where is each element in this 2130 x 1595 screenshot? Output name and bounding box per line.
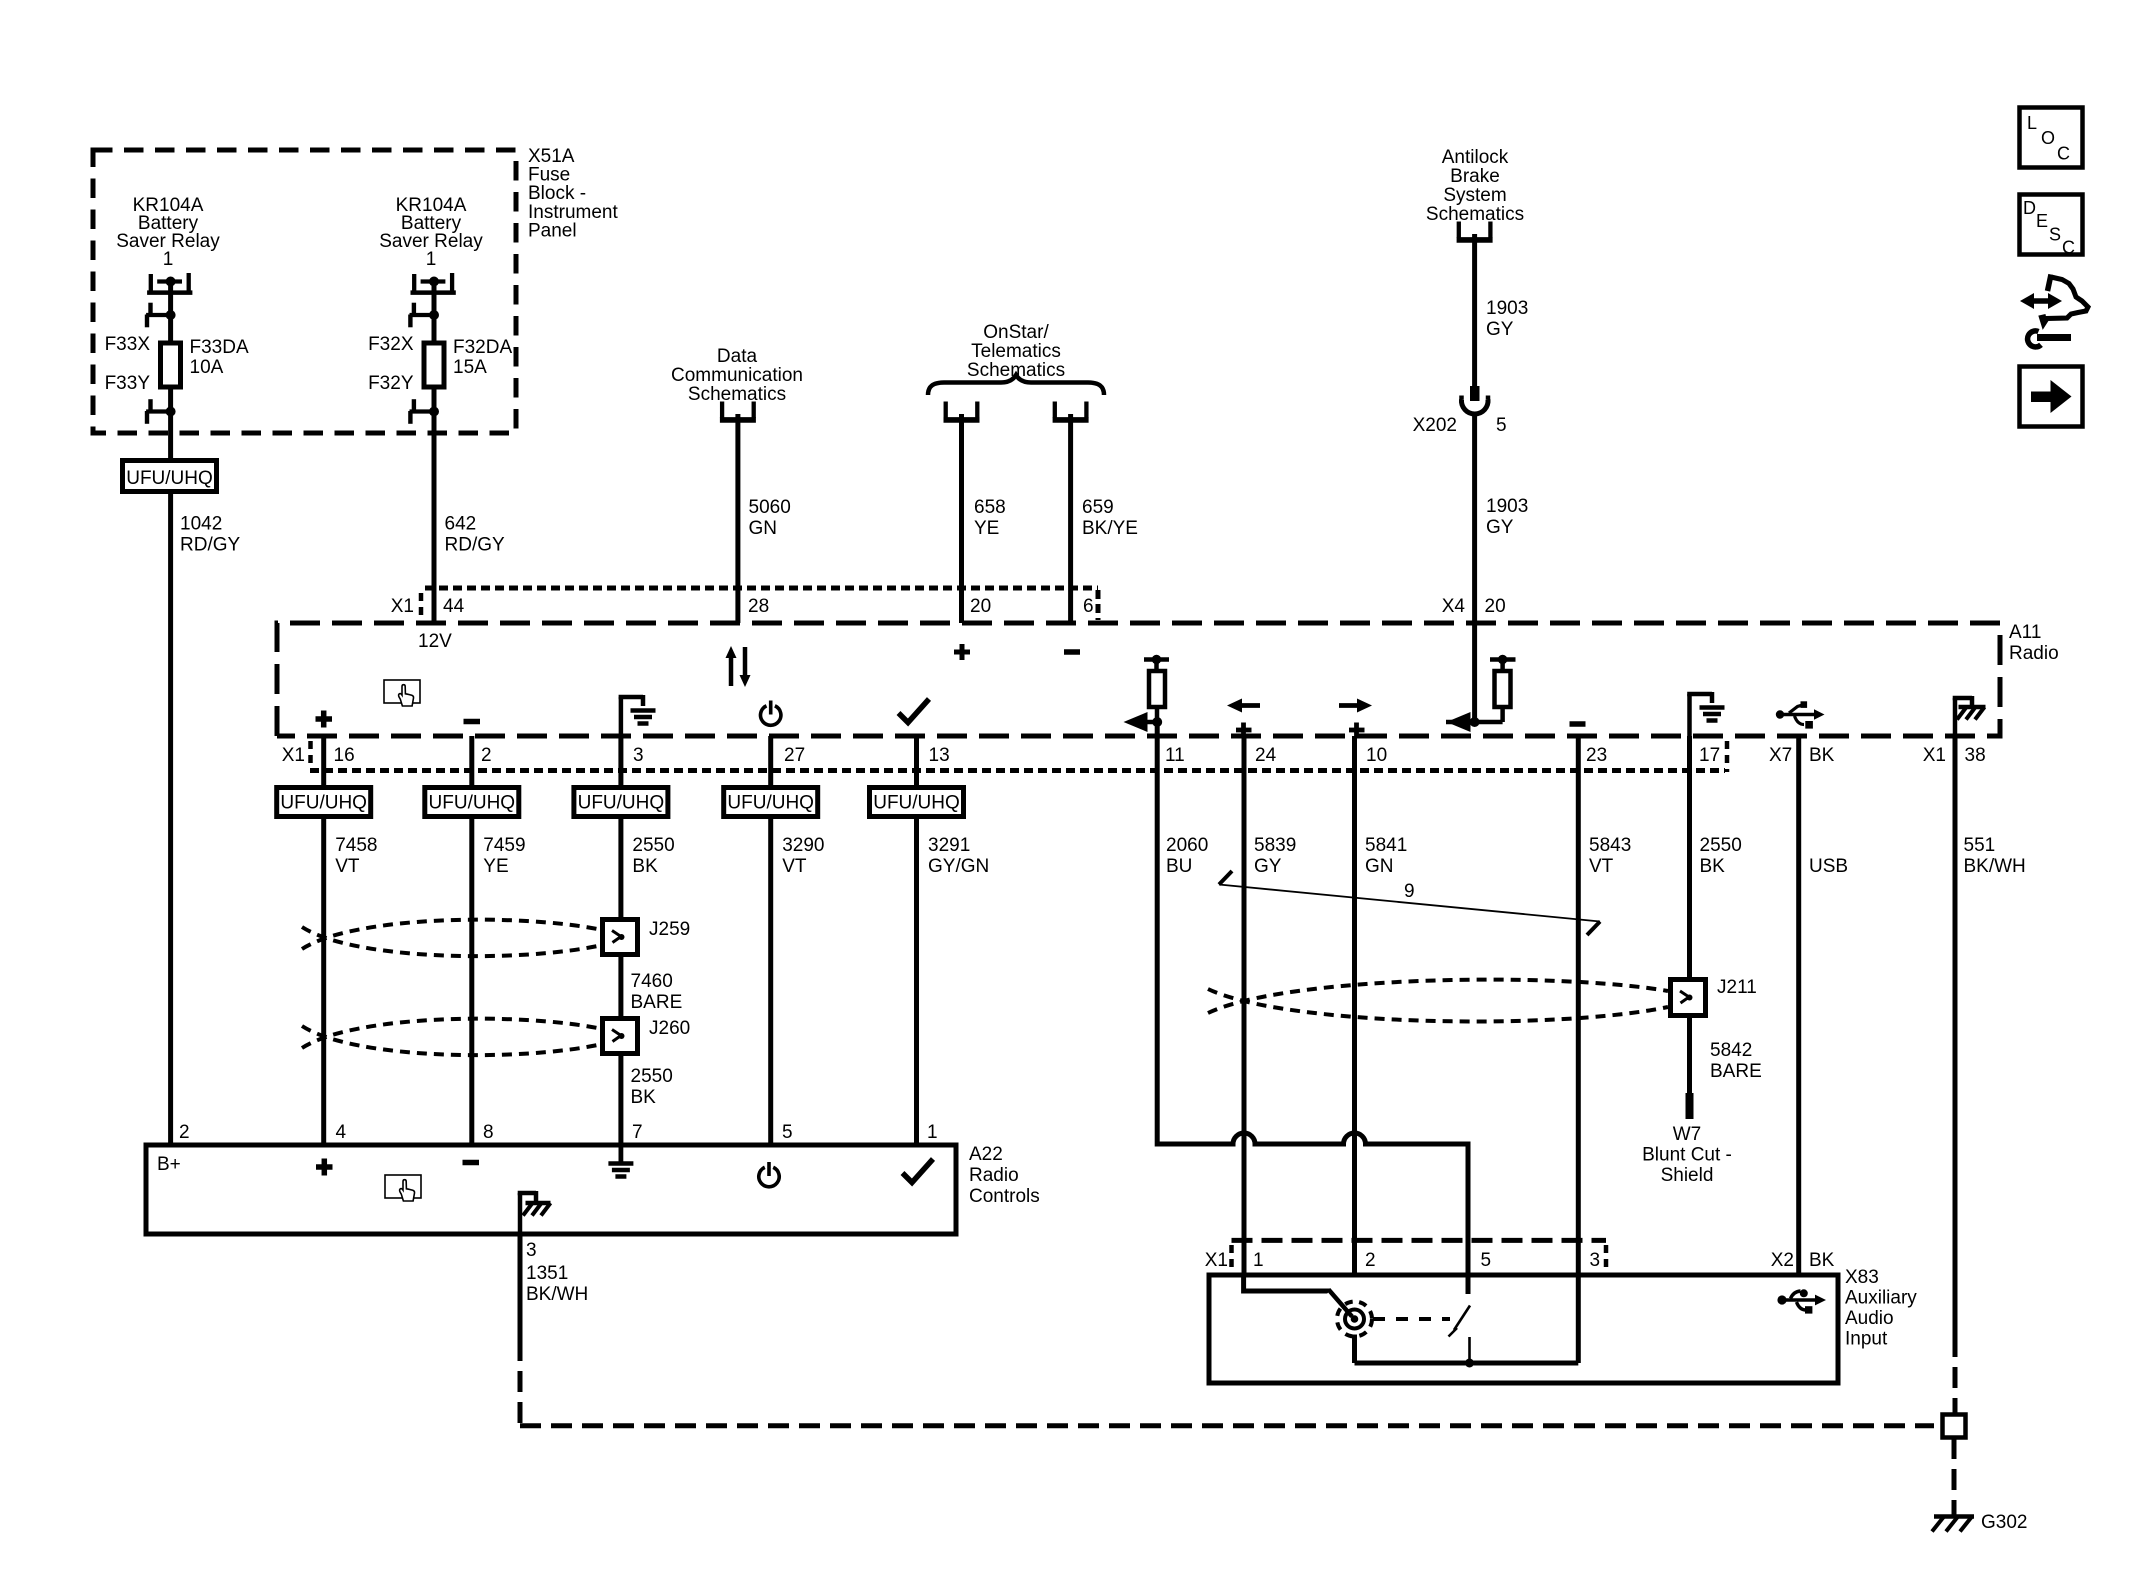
icon check (A22 pin 1) — [903, 1159, 934, 1183]
wire 2550 BK (pin 17) — [1687, 736, 1692, 981]
svg-text:2060: 2060 — [1166, 835, 1208, 856]
svg-text:13: 13 — [929, 745, 950, 766]
ECU box A11 Radio (dashed) — [277, 623, 2000, 736]
svg-text:3: 3 — [1590, 1250, 1601, 1271]
icon box next arrow — [2020, 367, 2083, 427]
label A22 pin 3 — [526, 1240, 537, 1261]
label 7458 VT — [335, 835, 377, 877]
fuse F33DA 10A — [161, 343, 181, 387]
svg-text:2: 2 — [1365, 1250, 1376, 1271]
option box UFU/UHQ (3290 wire) — [724, 788, 818, 817]
svg-text:24: 24 — [1255, 745, 1277, 766]
svg-text:2: 2 — [179, 1122, 190, 1143]
svg-text:VT: VT — [335, 856, 360, 877]
svg-text:J211: J211 — [1717, 977, 1757, 998]
terminal clip lower (left relay) — [146, 399, 176, 424]
wire stub radio pin 13 — [914, 736, 919, 789]
relay KR104A label (right) — [379, 195, 483, 270]
wire 1351 BK/WH (dashed to ground) — [520, 1340, 1934, 1426]
svg-text:1042: 1042 — [180, 514, 222, 535]
splice J211 — [1671, 980, 1706, 1016]
svg-text:Data: Data — [717, 346, 758, 367]
svg-text:7460: 7460 — [631, 971, 673, 992]
icon X4 pin 20 input arrow and element — [1446, 623, 1516, 732]
wire X83 pin 3 down — [1576, 1277, 1581, 1363]
svg-text:BK/WH: BK/WH — [1964, 856, 2026, 877]
wire 5839 GY (pin 24) — [1242, 736, 1247, 1277]
label F33X — [105, 334, 151, 355]
label F32X — [368, 334, 414, 355]
svg-text:10: 10 — [1366, 745, 1387, 766]
module box A22 Radio Controls — [146, 1145, 956, 1234]
wire 5060 GN — [735, 414, 740, 623]
label A22 Radio Controls — [969, 1144, 1040, 1207]
svg-text:7459: 7459 — [483, 835, 525, 856]
svg-text:BK/WH: BK/WH — [526, 1284, 588, 1305]
wire 7460 BARE (J259 to J260) — [618, 953, 623, 1020]
label BK (X7) — [1809, 745, 1835, 766]
svg-text:GY/GN: GY/GN — [928, 856, 989, 877]
label Antilock Brake System Schematics — [1426, 147, 1524, 225]
svg-text:2550: 2550 — [631, 1066, 673, 1087]
splice J260 — [603, 1019, 638, 1054]
svg-text:VT: VT — [782, 856, 807, 877]
wire relay2 pin to clip — [432, 282, 437, 316]
wire to G302 (dashed) — [1952, 1438, 1957, 1515]
label X83 pin 5 — [1481, 1250, 1492, 1271]
svg-text:12V: 12V — [418, 631, 452, 652]
icon signal ground (pin 17) — [1687, 692, 1724, 736]
relay KR104A label (left) — [116, 195, 220, 270]
label pin 27 — [784, 745, 805, 766]
label OnStar/Telematics Schematics — [967, 322, 1065, 381]
svg-text:BARE: BARE — [631, 992, 683, 1013]
wire clip to fuse F33DA — [168, 315, 173, 343]
svg-text:X1: X1 — [282, 745, 305, 766]
label A22 pin 8 — [483, 1122, 494, 1143]
icon signal ground (pin 3) — [619, 695, 656, 736]
icon USB (pin X7) — [1776, 701, 1825, 728]
svg-text:VT: VT — [1589, 856, 1614, 877]
terminal clip lower (right relay) — [410, 399, 440, 424]
svg-text:2: 2 — [481, 745, 492, 766]
label A22 pin 7 — [632, 1122, 643, 1143]
connector box X83 — [1209, 1275, 1838, 1383]
svg-text:X4: X4 — [1442, 596, 1466, 617]
terminal clip upper (right relay) — [410, 303, 440, 328]
label BK (X83) — [1809, 1250, 1835, 1271]
svg-text:GY: GY — [1486, 319, 1514, 340]
label 7460 BARE — [631, 971, 683, 1013]
svg-text:X1: X1 — [1205, 1250, 1228, 1271]
label pin 2 — [481, 745, 492, 766]
label pin 3 — [633, 745, 644, 766]
connector row dotted line (radio top) — [425, 588, 1098, 620]
svg-text:Radio: Radio — [2009, 643, 2059, 664]
icon - (pin 23) — [1570, 721, 1586, 727]
wire stub radio pin 16 — [321, 736, 326, 789]
svg-text:BK/YE: BK/YE — [1082, 518, 1138, 539]
label X83 pin 1 — [1253, 1250, 1264, 1271]
wire 2060 BU horizontal with hops — [1158, 1133, 1469, 1294]
svg-text:UFU/UHQ: UFU/UHQ — [429, 793, 516, 814]
svg-text:J260: J260 — [649, 1018, 690, 1039]
wire 1351 BK/WH (solid) — [518, 1234, 523, 1340]
wire 1903 GY upper — [1472, 234, 1477, 387]
label X4 — [1442, 596, 1466, 617]
label pin 20 (X1) — [970, 596, 991, 617]
svg-text:RD/GY: RD/GY — [445, 535, 506, 556]
icon - (pin 2) — [464, 719, 481, 725]
wire 1042 RD/GY — [168, 491, 173, 1147]
wire 1903 GY lower — [1472, 412, 1477, 625]
wire 551 BK/WH dashed segment — [1953, 1336, 1958, 1414]
shield drain loop to J211 — [1208, 980, 1668, 1022]
label X1 (X83) — [1205, 1250, 1228, 1271]
label 1903 GY (lower) — [1486, 496, 1528, 538]
svg-text:BK: BK — [1809, 1250, 1835, 1271]
splice J259 — [603, 920, 638, 955]
svg-text:5: 5 — [1481, 1250, 1492, 1271]
svg-text:Auxiliary: Auxiliary — [1845, 1288, 1917, 1309]
svg-text:X1: X1 — [391, 596, 414, 617]
svg-text:Blunt Cut -: Blunt Cut - — [1642, 1145, 1732, 1166]
label W7 Blunt Cut - Shield — [1642, 1124, 1732, 1186]
svg-text:5841: 5841 — [1365, 835, 1407, 856]
wire 551 BK/WH (pin 38) — [1953, 736, 1958, 1336]
wire 2550 BK (J260 to A22 pin 7) — [618, 1052, 623, 1147]
icon check (pin 13) — [899, 699, 930, 723]
svg-text:X7: X7 — [1769, 745, 1792, 766]
label pin 24 — [1255, 745, 1277, 766]
shield drain loop to J260 — [302, 1019, 600, 1055]
wire relay1 pin to clip — [168, 282, 173, 316]
relay KR104A pin 1 connector (right) — [411, 273, 456, 293]
icon chassis ground (A22 pin 3) — [518, 1191, 551, 1234]
svg-text:UFU/UHQ: UFU/UHQ — [126, 468, 213, 489]
svg-text:4: 4 — [336, 1122, 347, 1143]
label pin 10 — [1366, 745, 1387, 766]
svg-text:642: 642 — [445, 514, 477, 535]
icon right arrow (pin 10) — [1339, 699, 1372, 713]
svg-text:Schematics: Schematics — [1426, 204, 1524, 225]
off-page connector (onstar +) — [944, 402, 980, 420]
svg-text:Input: Input — [1845, 1329, 1888, 1350]
icon chassis ground (pin 38) — [1953, 696, 1986, 736]
svg-text:Antilock: Antilock — [1442, 147, 1509, 168]
svg-text:E: E — [2036, 211, 2048, 231]
label 2550 BK (pin 17) — [1700, 835, 1742, 877]
switch blade (X83) — [1449, 1306, 1471, 1337]
svg-text:Brake: Brake — [1450, 166, 1500, 187]
label 7459 YE — [483, 835, 525, 877]
svg-text:Controls: Controls — [969, 1186, 1040, 1207]
svg-text:20: 20 — [970, 596, 991, 617]
svg-text:1: 1 — [927, 1122, 938, 1143]
label 5841 GN — [1365, 835, 1407, 877]
label 642 RD/GY — [445, 514, 506, 556]
wire 658 YE — [959, 414, 964, 623]
label USB — [1809, 856, 1848, 877]
svg-text:UFU/UHQ: UFU/UHQ — [727, 793, 814, 814]
label F33Y — [105, 373, 151, 394]
icon signal ground (A22 pin 7) — [608, 1145, 633, 1177]
label pin 23 — [1586, 745, 1607, 766]
svg-text:D: D — [2023, 198, 2036, 218]
svg-text:28: 28 — [748, 596, 769, 617]
wire USB X7 — [1796, 736, 1801, 1277]
label A22 pin 2 — [179, 1122, 190, 1143]
icon vehicle data exchange — [2020, 275, 2088, 347]
circuit 9 indicator line — [1219, 871, 1600, 935]
wire relay1 out of fuse block — [168, 412, 173, 461]
fuse F32DA 15A — [424, 343, 444, 387]
icon USB (X83) — [1777, 1289, 1826, 1313]
label pin 11 — [1165, 745, 1185, 766]
svg-text:38: 38 — [1965, 745, 1986, 766]
svg-text:3: 3 — [526, 1240, 537, 1261]
brace (onstar telematics) — [928, 375, 1104, 395]
label 5842 BARE — [1710, 1040, 1762, 1082]
svg-text:BK: BK — [631, 1087, 657, 1108]
icon left arrow (pin 24) — [1227, 699, 1260, 713]
svg-text:5060: 5060 — [749, 497, 791, 518]
wire 659 BK/YE — [1068, 414, 1073, 623]
wire stub radio pin 2 — [469, 736, 474, 789]
svg-text:20: 20 — [1485, 596, 1506, 617]
label 1351 BK/WH — [526, 1263, 588, 1305]
svg-text:GN: GN — [749, 518, 778, 539]
label 1042 RD/GY — [180, 514, 241, 556]
label X1 (radio top) — [391, 596, 414, 617]
connector row dotted line (radio bottom) — [310, 768, 1725, 773]
wire X83 jack return — [1355, 1335, 1579, 1364]
label 2550 BK (below J260) — [631, 1066, 673, 1108]
svg-text:BARE: BARE — [1710, 1061, 1762, 1082]
svg-text:6: 6 — [1083, 596, 1094, 617]
svg-text:8: 8 — [483, 1122, 494, 1143]
off-page connector (data communication) — [720, 402, 756, 420]
wire clip to fuse F32DA — [432, 315, 437, 343]
svg-text:S: S — [2049, 225, 2061, 245]
svg-text:BU: BU — [1166, 856, 1192, 877]
svg-text:Shield: Shield — [1661, 1165, 1714, 1186]
label 9 — [1404, 881, 1415, 902]
label pin 6 — [1083, 596, 1094, 617]
label 658 YE — [974, 497, 1006, 539]
label J259 — [649, 919, 690, 940]
inline connector square (551 BK/WH) — [1943, 1415, 1966, 1438]
svg-text:17: 17 — [1699, 745, 1720, 766]
separator dots (radio top X1) — [419, 593, 424, 618]
icon - (A22 pin 8) — [463, 1160, 480, 1166]
icon + (pin 10) — [1349, 723, 1365, 738]
label pin 13 — [929, 745, 950, 766]
svg-text:BK: BK — [1809, 745, 1835, 766]
jack switch linkage (dashed) — [1373, 1317, 1450, 1321]
svg-text:Radio: Radio — [969, 1165, 1019, 1186]
svg-text:X1: X1 — [1923, 745, 1946, 766]
svg-text:G302: G302 — [1981, 1512, 2027, 1533]
wire 3291 GY/GN to A22 pin 1 — [914, 814, 919, 1147]
svg-text:GY: GY — [1254, 856, 1282, 877]
svg-text:5: 5 — [1496, 415, 1507, 436]
svg-text:F32X: F32X — [368, 334, 414, 355]
svg-text:A11: A11 — [2009, 622, 2041, 643]
separator dots (X83 X1) — [1229, 1245, 1234, 1272]
label pin 28 — [748, 596, 769, 617]
label A11 Radio — [2009, 622, 2059, 664]
wire X83 pin 1 to jack — [1244, 1277, 1330, 1291]
label A22 pin 1 — [927, 1122, 938, 1143]
jack contact rings — [1337, 1302, 1372, 1337]
svg-text:10A: 10A — [190, 357, 224, 378]
wire stub radio pin 27 — [768, 736, 773, 789]
label 551 BK/WH — [1964, 835, 2026, 877]
icon touch control (radio) — [384, 680, 420, 706]
svg-text:Panel: Panel — [528, 220, 577, 241]
label pin 16 — [334, 745, 355, 766]
svg-text:9: 9 — [1404, 881, 1415, 902]
connector row dashed line (X83) — [1232, 1238, 1607, 1243]
icon touch control (A22) — [385, 1175, 421, 1201]
svg-text:Schematics: Schematics — [688, 384, 786, 405]
label X2 (X83) — [1771, 1250, 1794, 1271]
svg-text:USB: USB — [1809, 856, 1848, 877]
icon + (pin 16) — [316, 711, 333, 728]
off-page connector (antilock brake) — [1457, 222, 1493, 240]
svg-text:YE: YE — [974, 518, 999, 539]
svg-text:System: System — [1443, 185, 1506, 206]
svg-text:7: 7 — [632, 1122, 643, 1143]
label B+ (A22 pin 2) — [157, 1154, 181, 1175]
label 5839 GY — [1254, 835, 1296, 877]
svg-text:Communication: Communication — [671, 365, 803, 386]
svg-text:L: L — [2027, 113, 2037, 133]
svg-text:3290: 3290 — [782, 835, 824, 856]
svg-text:X202: X202 — [1413, 415, 1457, 436]
svg-text:YE: YE — [483, 856, 508, 877]
wire 5841 GN (pin 10) — [1352, 736, 1357, 1277]
svg-text:44: 44 — [443, 596, 465, 617]
svg-text:5: 5 — [782, 1122, 793, 1143]
wire 7459 YE to A22 pin 8 — [469, 814, 474, 1147]
svg-text:659: 659 — [1082, 497, 1114, 518]
option box UFU/UHQ (2550 wire) — [574, 788, 668, 817]
label pin 44 — [443, 596, 465, 617]
label X83 pin 2 — [1365, 1250, 1376, 1271]
terminal clip upper (left relay) — [146, 303, 176, 328]
label A22 pin 5 — [782, 1122, 793, 1143]
svg-text:Audio: Audio — [1845, 1308, 1894, 1329]
label 3290 VT — [782, 835, 824, 877]
shield drain loop to J259 — [302, 920, 600, 956]
icon + (onstar plus pin 20) — [954, 644, 970, 660]
label X1 (radio bottom) — [282, 745, 305, 766]
svg-text:W7: W7 — [1673, 1124, 1702, 1145]
fuse block X51A dashed outline — [93, 150, 516, 433]
label X83 Auxiliary Audio Input — [1845, 1267, 1917, 1350]
svg-text:1: 1 — [426, 249, 437, 270]
svg-text:X83: X83 — [1845, 1267, 1879, 1288]
label G302 — [1981, 1512, 2027, 1533]
icon input arrow and element (pin 11) — [1124, 655, 1170, 732]
svg-text:551: 551 — [1964, 835, 1996, 856]
wire 2550 BK to splice J259 — [618, 814, 623, 921]
label X7 — [1769, 745, 1792, 766]
option box UFU/UHQ (1042 wire) — [123, 461, 217, 492]
label 12V — [418, 631, 452, 652]
label J211 — [1717, 977, 1757, 998]
svg-text:1903: 1903 — [1486, 298, 1528, 319]
ground G302 — [1932, 1517, 1974, 1532]
wire fuse to lower clip (right) — [432, 387, 437, 412]
svg-text:GY: GY — [1486, 517, 1514, 538]
junction dot (X83) — [1465, 1359, 1474, 1368]
label X51A Fuse Block - Instrument Panel — [528, 146, 618, 241]
icon + (A22 pin 4) — [316, 1159, 333, 1176]
svg-text:15A: 15A — [453, 357, 487, 378]
label pin 20 (X4) — [1485, 596, 1506, 617]
svg-text:1351: 1351 — [526, 1263, 568, 1284]
label F33DA 10A — [190, 337, 249, 378]
separator dots (radio bottom X1) — [308, 741, 313, 768]
svg-text:2550: 2550 — [632, 835, 674, 856]
svg-text:5842: 5842 — [1710, 1040, 1752, 1061]
svg-text:2550: 2550 — [1700, 835, 1742, 856]
label 2060 BU — [1166, 835, 1208, 877]
icon power (A22 pin 5) — [759, 1162, 779, 1187]
svg-text:GN: GN — [1365, 856, 1394, 877]
icon box LOC — [2020, 108, 2083, 168]
svg-text:658: 658 — [974, 497, 1006, 518]
label 5843 VT — [1589, 835, 1631, 877]
blunt cut W7 — [1686, 1093, 1694, 1119]
label F32DA 15A — [453, 337, 512, 378]
wire fuse to lower clip (left) — [168, 387, 173, 412]
inline connector X202 pin 5 — [1461, 386, 1488, 414]
svg-text:J259: J259 — [649, 919, 690, 940]
svg-text:5843: 5843 — [1589, 835, 1631, 856]
svg-text:Telematics: Telematics — [971, 341, 1061, 362]
svg-text:UFU/UHQ: UFU/UHQ — [578, 793, 665, 814]
label X1 (pin 38) — [1923, 745, 1946, 766]
separator dots (after pin 17) — [1725, 741, 1730, 772]
svg-text:11: 11 — [1165, 745, 1185, 766]
relay KR104A pin 1 connector (left) — [147, 273, 192, 293]
label pin 17 — [1699, 745, 1720, 766]
svg-text:C: C — [2062, 238, 2075, 258]
option box UFU/UHQ (7459 wire) — [425, 788, 519, 817]
svg-text:RD/GY: RD/GY — [180, 535, 241, 556]
icon + (pin 24) — [1236, 723, 1252, 738]
svg-text:1: 1 — [1253, 1250, 1264, 1271]
svg-text:C: C — [2057, 144, 2070, 164]
svg-text:F32DA: F32DA — [453, 337, 512, 358]
label X202 — [1413, 415, 1457, 436]
option box UFU/UHQ (3291 wire) — [870, 788, 964, 817]
svg-text:23: 23 — [1586, 745, 1607, 766]
wire switch to junction — [1468, 1337, 1471, 1360]
icon power (pin 27) — [760, 701, 780, 726]
svg-text:B+: B+ — [157, 1154, 181, 1175]
svg-text:3291: 3291 — [928, 835, 970, 856]
label 1903 GY (upper) — [1486, 298, 1528, 340]
label A22 pin 4 — [336, 1122, 347, 1143]
wire 7458 VT to A22 pin 4 — [321, 814, 326, 1147]
svg-text:F32Y: F32Y — [368, 373, 414, 394]
svg-text:F33Y: F33Y — [105, 373, 151, 394]
